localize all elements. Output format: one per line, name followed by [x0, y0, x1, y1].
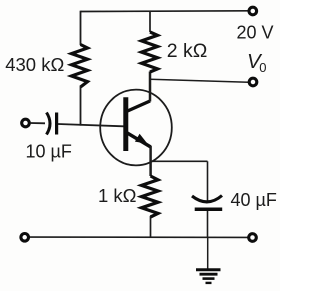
capacitor C1 straight plate	[55, 113, 58, 135]
terminal Vo	[249, 78, 257, 86]
svg-text:0: 0	[259, 60, 266, 75]
svg-text:2 kΩ: 2 kΩ	[167, 40, 208, 62]
transistor Q1 base bar	[123, 97, 128, 151]
wire input to C1	[30, 122, 45, 124]
wire top rail to R1	[80, 11, 82, 45]
terminal bottom left	[21, 234, 29, 242]
terminal 20V supply	[249, 7, 257, 15]
wire collector vertical	[149, 72, 152, 102]
wire Vo output	[150, 79, 249, 82]
wire emitter vertical	[149, 146, 152, 176]
terminal bottom right	[249, 234, 257, 242]
transistor Q1 emitter arrow	[135, 134, 148, 144]
transistor Q1 body circle	[100, 90, 172, 166]
wire rail to ground symbol	[207, 237, 209, 268]
resistor R2 2 kOhm	[142, 32, 158, 72]
capacitor C2 straight plate	[195, 208, 223, 212]
wire top rail to R2	[149, 11, 151, 32]
wire C2 to ground rail	[207, 211, 209, 237]
wire emitter node to bypass branch	[150, 160, 208, 162]
capacitor C2 curved plate	[192, 196, 222, 202]
wire R3 to ground rail	[150, 216, 152, 237]
svg-text:1 kΩ: 1 kΩ	[98, 185, 137, 206]
wire R1 to base node	[80, 86, 82, 126]
wire bottom ground rail	[30, 236, 249, 238]
wire top supply rail	[81, 10, 249, 13]
ground symbol	[196, 270, 221, 283]
svg-text:10 µF: 10 µF	[26, 142, 72, 162]
capacitor C1 curved plate	[47, 113, 51, 135]
svg-text:40 µF: 40 µF	[231, 190, 277, 210]
resistor R3 1 kOhm	[142, 176, 159, 217]
transistor Q1 emitter stroke	[127, 133, 150, 147]
svg-text:20 V: 20 V	[237, 23, 274, 43]
terminal input	[22, 119, 30, 127]
svg-text:430 kΩ: 430 kΩ	[5, 54, 64, 75]
wire C1 to transistor base	[58, 124, 124, 126]
resistor R1 430 kOhm	[72, 45, 88, 88]
transistor Q1 collector stroke	[128, 101, 151, 111]
wire bypass branch down to C2	[207, 161, 209, 200]
